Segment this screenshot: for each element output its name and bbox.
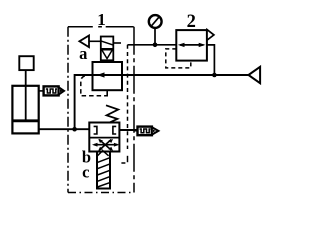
svg-text:2: 2 (187, 12, 196, 32)
svg-text:c: c (82, 163, 89, 182)
svg-text:a: a (79, 44, 87, 63)
svg-text:1: 1 (97, 10, 106, 29)
